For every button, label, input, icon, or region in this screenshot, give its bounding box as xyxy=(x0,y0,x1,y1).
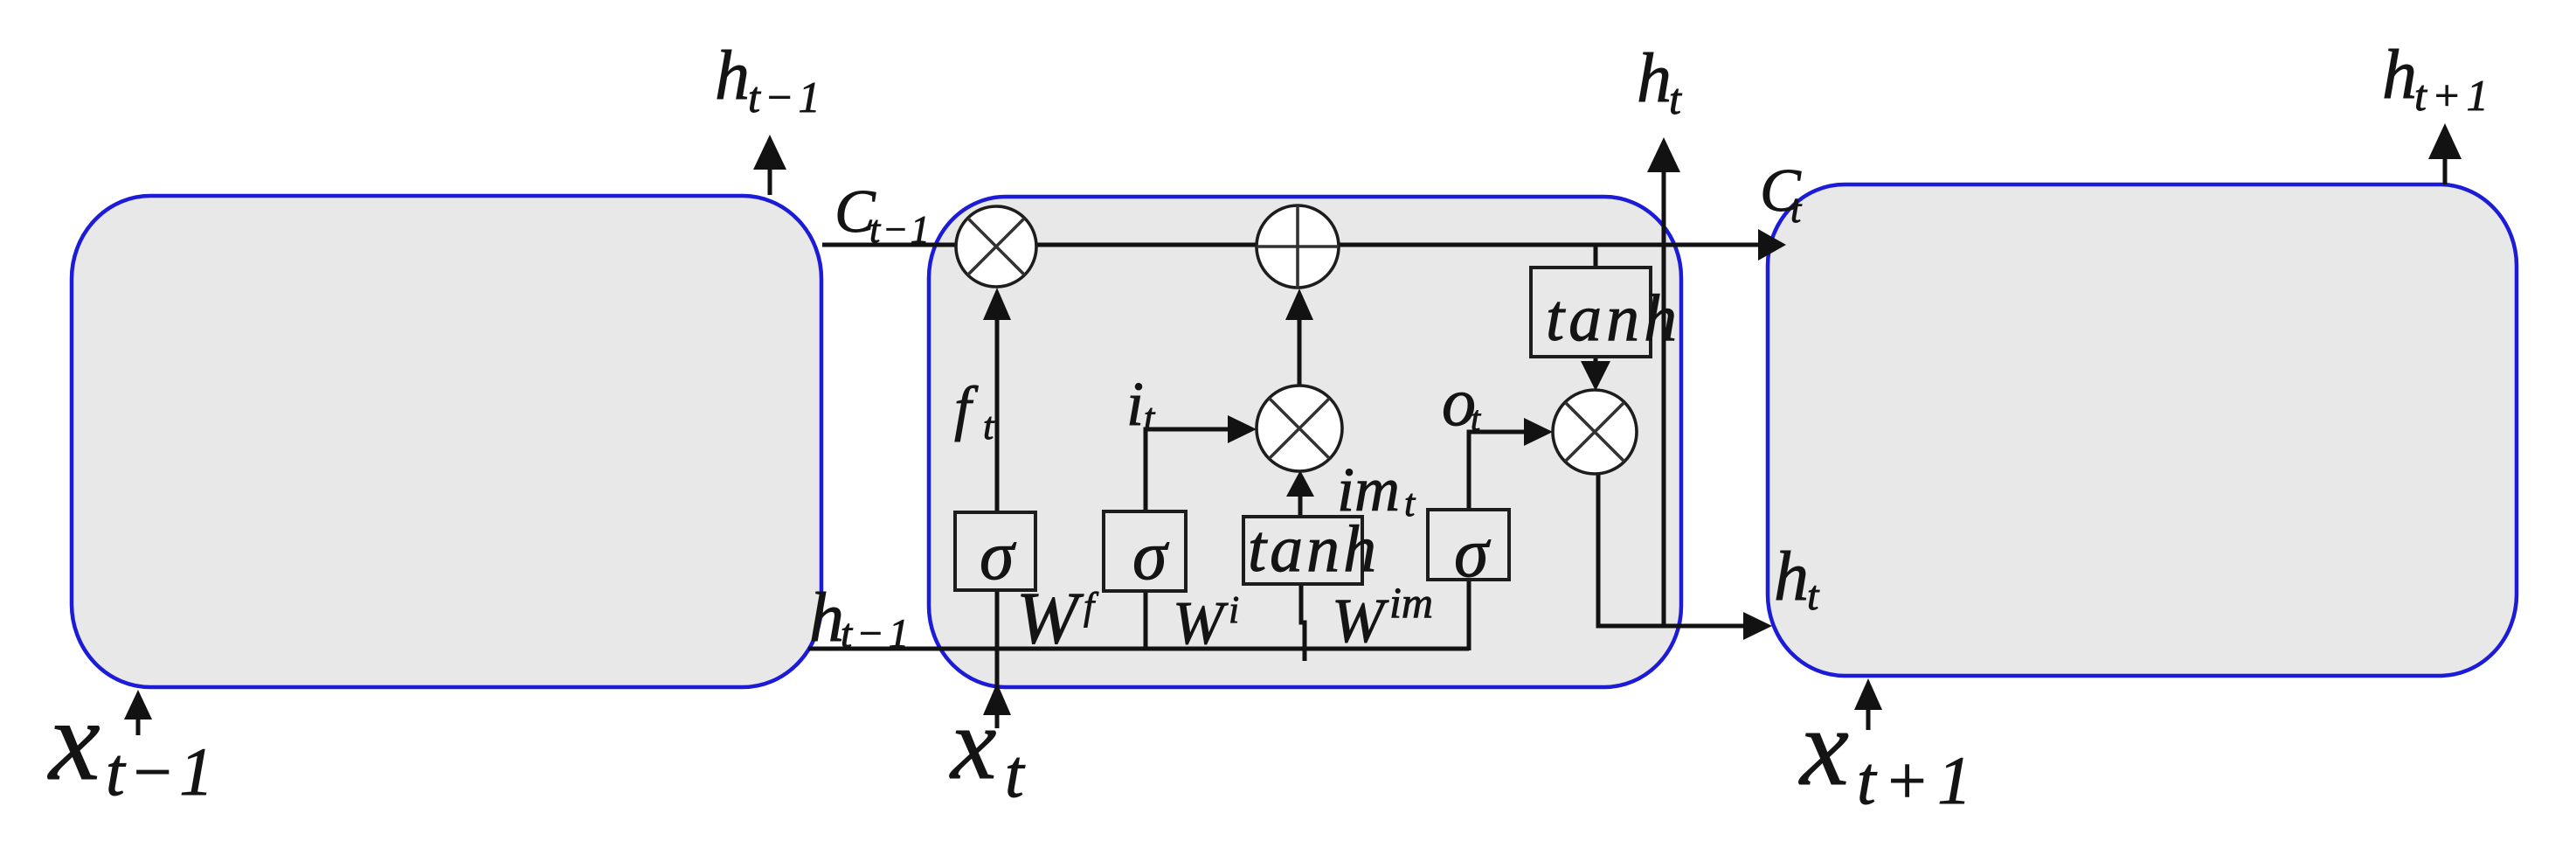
svg-text:x: x xyxy=(949,686,996,801)
svg-text:t−1: t−1 xyxy=(106,733,218,810)
svg-text:im: im xyxy=(1337,455,1400,525)
svg-text:h: h xyxy=(2382,37,2417,114)
svg-text:i: i xyxy=(1126,369,1144,439)
svg-text:x: x xyxy=(1798,687,1849,809)
svg-text:σ: σ xyxy=(1132,518,1169,594)
svg-text:h: h xyxy=(1774,539,1809,615)
svg-text:t−1: t−1 xyxy=(869,208,931,251)
svg-text:t: t xyxy=(983,405,995,448)
svg-text:W: W xyxy=(1173,590,1229,657)
svg-text:t: t xyxy=(1005,735,1026,811)
svg-text:t−1: t−1 xyxy=(748,73,825,122)
svg-text:t: t xyxy=(1807,573,1820,619)
svg-text:t+1: t+1 xyxy=(1857,742,1979,818)
svg-text:h: h xyxy=(715,38,750,115)
svg-text:t: t xyxy=(1471,399,1481,438)
svg-text:tanh: tanh xyxy=(1546,282,1681,355)
svg-text:σ: σ xyxy=(980,518,1016,594)
svg-text:W: W xyxy=(1332,586,1389,656)
svg-text:t: t xyxy=(1669,74,1682,123)
svg-text:t: t xyxy=(1404,482,1416,525)
svg-text:i: i xyxy=(1229,588,1239,631)
svg-text:h: h xyxy=(809,580,844,657)
svg-text:W: W xyxy=(1016,577,1084,659)
svg-text:t: t xyxy=(1790,188,1803,231)
svg-text:σ: σ xyxy=(1454,515,1491,592)
svg-text:x: x xyxy=(47,676,100,804)
svg-text:t−1: t−1 xyxy=(841,611,913,657)
svg-text:t+1: t+1 xyxy=(2414,71,2494,120)
svg-text:t: t xyxy=(1144,396,1156,439)
svg-text:h: h xyxy=(1637,40,1672,117)
svg-text:im: im xyxy=(1389,578,1433,627)
